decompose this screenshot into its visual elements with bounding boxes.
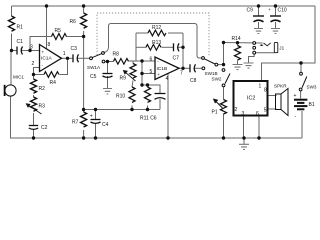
jack J1 contacts (253, 42, 256, 55)
svg-text:5: 5 (150, 69, 153, 75)
wire R11 C6 top node (142, 84, 148, 86)
svg-text:R13: R13 (152, 40, 161, 46)
wire R2 top (33, 75, 35, 80)
wire SW1A bypass loop (104, 24, 202, 59)
svg-text:R10: R10 (116, 94, 125, 100)
svg-text:C4: C4 (102, 122, 109, 128)
svg-text:R4: R4 (50, 80, 57, 86)
wire pin2 jog (34, 68, 40, 75)
wire R11 top stub (147, 85, 149, 87)
svg-text:2: 2 (235, 107, 238, 113)
wire R6 top (83, 6, 85, 13)
wire jack sleeve to ground (249, 54, 255, 62)
wire right rail (301, 6, 315, 63)
capacitor C9 (253, 16, 264, 22)
resistor R9 trimmer arrow (124, 71, 136, 81)
op-amp IC1A (40, 45, 62, 72)
wire C3 to SW1A (77, 57, 90, 59)
wire R10 bottom (131, 106, 133, 110)
ground J1 (244, 63, 254, 68)
wire R1 drop (11, 6, 13, 16)
wire R9 R10 link (132, 81, 133, 88)
wire C10 top (275, 6, 277, 16)
resistor R4 (44, 72, 59, 78)
wire IC2 pin8 to speaker (268, 95, 277, 97)
wire C9 ground stub (258, 22, 260, 28)
wire R13 to C7 (162, 46, 174, 48)
capacitor C5 (103, 74, 113, 78)
potentiometer P1 wiper arrow (213, 99, 223, 109)
svg-text:2: 2 (32, 61, 35, 67)
wire SW3 top stub (300, 63, 302, 72)
wire R3 to C2 (33, 113, 35, 126)
wire R2 R3 link (33, 95, 35, 97)
resistor R8 (114, 59, 129, 65)
svg-text:C2: C2 (41, 125, 48, 131)
wire IC2 pin1 feed (262, 63, 302, 81)
jack J1 insertion arrow (260, 44, 264, 46)
svg-text:7: 7 (180, 71, 183, 77)
svg-text:C1: C1 (17, 39, 24, 45)
resistor R3 (31, 97, 37, 111)
wire feedback right riser (182, 33, 184, 68)
svg-text:IC2: IC2 (247, 96, 255, 102)
wire R7 top stub (83, 110, 85, 113)
wire mic top (10, 51, 12, 86)
wire output riser to jack line (223, 43, 225, 65)
wire C9 top (258, 6, 260, 16)
svg-text:R8: R8 (113, 52, 120, 58)
jack J1 body (274, 42, 278, 52)
wire IC1B pin4 to rail (167, 74, 169, 139)
svg-text:+: + (294, 93, 297, 99)
switch SW2 (222, 69, 230, 87)
switch SW1A (90, 52, 105, 63)
wire C4 top stub (95, 110, 97, 120)
svg-text:R3: R3 (39, 104, 46, 110)
wire IC1B output (179, 67, 190, 69)
ground C10 (271, 29, 280, 34)
wire R13 left (136, 46, 146, 48)
resistor R7 (81, 112, 87, 127)
wire IC1A output (62, 57, 74, 59)
svg-text:R9: R9 (120, 76, 127, 82)
resistor R13 (146, 45, 161, 51)
wire C1 right to pin3 (22, 50, 40, 52)
wire jack tip lead (256, 42, 263, 44)
svg-text:C9: C9 (247, 8, 254, 14)
wire R6 bottom / long drop to R7 bus (83, 31, 85, 110)
capacitor C8 (190, 64, 196, 72)
capacitor C6 (155, 94, 166, 100)
op-amp IC1B (155, 57, 179, 80)
svg-text:C8: C8 (190, 78, 197, 84)
wire ground bus R7 C4 R10 R11 C6 (84, 109, 160, 111)
svg-text:B1: B1 (309, 102, 315, 108)
wire IC2 pin6 to rail (258, 116, 260, 139)
svg-text:8: 8 (48, 42, 51, 48)
svg-text:J1: J1 (279, 46, 284, 51)
wire C2 to rail (33, 130, 35, 139)
wire C5 stub (107, 62, 109, 74)
svg-text:5: 5 (264, 108, 267, 114)
svg-text:SW1A: SW1A (87, 65, 101, 70)
resistor R6 (81, 13, 87, 28)
wire R11 bottom (147, 106, 149, 110)
capacitor C2 (29, 126, 38, 130)
svg-text:R11 C6: R11 C6 (140, 116, 157, 122)
svg-text:8: 8 (264, 88, 267, 94)
resistor R12 (148, 30, 166, 36)
wire SW3 to battery (300, 91, 302, 99)
svg-text:SW3: SW3 (307, 85, 317, 90)
wire R8 to IC1B pin6 (129, 60, 156, 62)
wire R8 left (108, 61, 114, 63)
svg-text:C10: C10 (278, 8, 287, 14)
wire R4 left (34, 74, 45, 76)
wire feedback left riser (135, 33, 137, 61)
wire IC2 pin3 to ground rail (243, 116, 245, 139)
resistor R1 (9, 16, 15, 31)
resistor R3 trimmer arrow (26, 104, 41, 114)
capacitor C3 (73, 54, 79, 62)
wire C6 bottom stub (159, 99, 161, 110)
wire IC2 pin5 to speaker (268, 108, 277, 110)
svg-text:1: 1 (63, 51, 66, 57)
wire P1 bottom to rail (223, 114, 225, 139)
wire R14 top stub (237, 43, 239, 46)
wire pin5 (142, 73, 155, 75)
svg-text:6: 6 (150, 56, 153, 62)
capacitor C1 (17, 47, 23, 55)
svg-text:R2: R2 (39, 86, 46, 92)
svg-text:R1: R1 (17, 25, 24, 31)
svg-text:C5: C5 (90, 74, 97, 80)
wire R9 top stub (132, 61, 134, 64)
resistor R5 (52, 34, 67, 40)
wire C5 ground stub (107, 76, 109, 88)
svg-text:4: 4 (166, 76, 169, 82)
wire jack sleeve lead (256, 52, 275, 54)
svg-text:6: 6 (256, 111, 259, 117)
resistor R11 (145, 87, 151, 102)
wire jack feed (224, 42, 253, 44)
ground C9 (254, 29, 263, 34)
ground IC2 pin3 (239, 144, 249, 149)
battery B1 (294, 100, 307, 110)
speaker SPKR (276, 89, 289, 116)
svg-text:MIC1: MIC1 (13, 75, 24, 80)
wire R14 ground stub (237, 61, 239, 65)
potentiometer P1 (221, 100, 227, 115)
wire R12 right (168, 32, 183, 34)
switch SW3 (299, 72, 307, 91)
dashed module box (97, 13, 209, 57)
wire R5 left leg to pin3 node (30, 37, 52, 51)
svg-text:C7: C7 (173, 56, 180, 62)
wire SW1B common to node (218, 64, 224, 66)
wire C7 to feedback riser (177, 46, 183, 48)
capacitor C4 (91, 120, 101, 124)
svg-text:P1: P1 (212, 110, 218, 116)
svg-text:C3: C3 (71, 46, 78, 52)
wire C10 ground stub (275, 22, 277, 28)
wire pin8 V+ (46, 6, 48, 49)
amplifier IC2 (234, 81, 268, 116)
wire battery negative riser (301, 111, 303, 138)
svg-text:R6: R6 (70, 19, 77, 25)
switch SW1B (202, 57, 218, 70)
resistor R2 (31, 79, 37, 93)
wire R12 left (136, 32, 148, 34)
wire R4 right feedback riser (60, 58, 68, 74)
wire R5 right to R6 node (67, 36, 84, 38)
svg-text:+: + (90, 114, 93, 120)
wire C8 to SW1B (194, 67, 203, 69)
wire R1 to C1 node (11, 34, 13, 51)
wire C6 top jog (148, 85, 161, 94)
svg-text:R7: R7 (72, 120, 79, 126)
svg-text:+: + (268, 7, 271, 12)
wire SW1A lower contact to node (105, 61, 108, 63)
jack J1 tip spring (264, 43, 271, 46)
wire C4 bottom (95, 123, 97, 138)
microphone MIC1 (5, 85, 17, 96)
svg-text:R5: R5 (55, 28, 62, 34)
wire C1 left (12, 50, 18, 52)
wire rail ground stub (243, 138, 245, 144)
wire SW2 bottom to P1 (223, 87, 225, 100)
svg-text:1: 1 (259, 84, 262, 90)
svg-text:SW1B: SW1B (205, 71, 218, 76)
wire top rail (12, 5, 316, 7)
svg-text:IC1A: IC1A (41, 56, 52, 62)
svg-text:R14: R14 (232, 36, 241, 42)
svg-text:3: 3 (242, 111, 245, 117)
wire mic bottom to rail (11, 97, 303, 139)
capacitor C10 (270, 16, 281, 22)
svg-text:R12: R12 (152, 25, 161, 31)
svg-text:+: + (157, 72, 160, 77)
ground C5 (103, 29, 280, 150)
ground R14 (233, 65, 243, 70)
resistor R14 (235, 46, 241, 61)
resistor R10 (129, 87, 135, 102)
svg-text:SW2: SW2 (212, 77, 222, 82)
wire pin5 tap riser (141, 61, 143, 85)
wire R7 bottom (83, 130, 85, 138)
resistor R9 (130, 64, 136, 79)
svg-text:+: + (42, 49, 45, 54)
svg-text:SPKR: SPKR (274, 84, 287, 89)
svg-text:3: 3 (30, 44, 33, 50)
capacitor C7 (174, 43, 180, 51)
